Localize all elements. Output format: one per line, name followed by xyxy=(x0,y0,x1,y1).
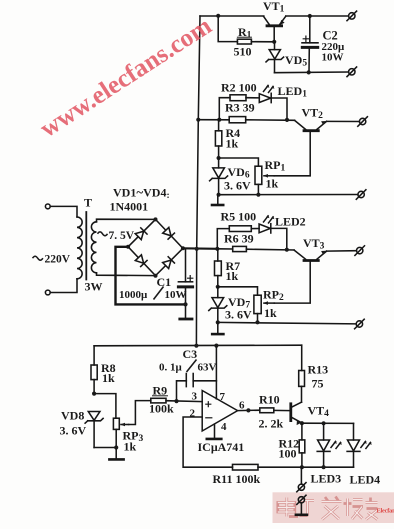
svg-text:R11 100k: R11 100k xyxy=(213,472,261,486)
capacitor C3 xyxy=(177,374,217,402)
resistor R9 xyxy=(151,398,166,403)
wire RP3 wiper to R9 xyxy=(129,401,151,425)
wire bridge minus xyxy=(116,247,186,305)
svg-text:1k: 1k xyxy=(226,269,239,283)
zener VD7 xyxy=(209,287,227,323)
wire RP1 wiper to VT2 base xyxy=(274,132,310,176)
node RP3 bottom xyxy=(114,445,118,449)
node R12 bottom xyxy=(300,465,304,469)
potentiometer RP3 xyxy=(113,418,128,447)
wire VT3 emitter to terminal xyxy=(327,250,357,252)
wire R6 to VT3 xyxy=(246,248,294,251)
wire R5 to LED2 xyxy=(251,228,259,230)
node rail/left bus xyxy=(194,344,198,348)
glyph fa xyxy=(322,497,342,520)
wire pin4 to ground xyxy=(214,424,216,438)
ground stage3 xyxy=(212,322,223,334)
terminal output 1b xyxy=(347,67,357,77)
terminal output 2b xyxy=(356,190,366,200)
svg-text:3. 6V: 3. 6V xyxy=(60,424,87,438)
resistor R12 xyxy=(299,423,305,467)
zener VD8 xyxy=(85,412,103,448)
wire R1 to VT1 base node xyxy=(251,41,274,43)
ground opamp pin4 xyxy=(207,438,222,441)
svg-text:1k: 1k xyxy=(124,440,137,454)
potentiometer RP1 xyxy=(255,166,274,195)
LED LED4 xyxy=(347,423,372,467)
capacitor C1 xyxy=(178,249,192,318)
transistor VT1 xyxy=(264,16,286,42)
node stage3 bus xyxy=(215,247,219,251)
node bridge right vertex xyxy=(181,246,185,250)
terminal output 3a xyxy=(355,246,365,256)
wire stage2 main line xyxy=(198,119,229,121)
node C1 minus junction xyxy=(183,302,187,306)
wire VT4 collector to R13 xyxy=(301,386,303,402)
glyph you xyxy=(366,498,378,520)
transformer T core xyxy=(85,212,87,280)
wire bridge plus xyxy=(183,247,217,250)
wire LED1 to main node xyxy=(271,98,287,120)
svg-text:R3 39: R3 39 xyxy=(225,101,255,115)
terminal output 1a xyxy=(347,11,357,21)
wire VT1 emitter to terminal xyxy=(286,15,349,17)
wire bottom line to LED4 xyxy=(302,466,354,468)
node R4 bottom xyxy=(217,156,221,160)
wire stage3 main line xyxy=(217,248,232,250)
svg-text:R2 100: R2 100 xyxy=(221,81,257,95)
resistor R6 xyxy=(233,246,247,251)
wire output drop xyxy=(300,467,302,484)
terminal output 2a xyxy=(358,117,368,127)
wire R2 loop left xyxy=(219,98,230,120)
LED LED3 xyxy=(317,423,342,467)
terminal output 4b xyxy=(297,495,306,504)
svg-text:220V: 220V xyxy=(45,254,71,266)
node bridge top vertex xyxy=(154,217,158,221)
resistor R10 xyxy=(260,408,274,413)
svg-text:0. 1μ: 0. 1μ xyxy=(159,362,183,374)
wire R9 to pin3 xyxy=(166,400,202,403)
wire emitter to LED rail xyxy=(302,422,354,424)
wire VT2 emitter to terminal xyxy=(327,120,360,122)
node stage2 line on left bus xyxy=(196,118,200,122)
node bridge plus / left bus xyxy=(195,247,199,251)
svg-text:1k: 1k xyxy=(102,371,115,385)
terminal AC input bottom xyxy=(45,290,50,295)
svg-text:R10: R10 xyxy=(259,393,280,407)
wire R1 left branch xyxy=(218,16,237,42)
wire R2 to LED1 xyxy=(246,97,259,99)
LED LED2 xyxy=(259,215,274,233)
node LED2/VT3 collector xyxy=(285,248,289,252)
diode VD2 xyxy=(163,227,175,239)
svg-text:3. 6V: 3. 6V xyxy=(225,308,252,322)
wire R4 node to RP1 top xyxy=(219,158,259,166)
terminal output 3b xyxy=(355,319,365,329)
resistor R5 xyxy=(229,226,251,232)
svg-text:510: 510 xyxy=(234,45,252,59)
svg-text:Elecfans.com: Elecfans.com xyxy=(377,508,394,515)
zener VD6 xyxy=(210,158,228,195)
capacitor C2 xyxy=(302,16,318,72)
svg-text:7: 7 xyxy=(220,391,226,403)
node VT4 emitter xyxy=(300,421,304,425)
svg-text:75: 75 xyxy=(312,377,324,391)
node stage2 loop left xyxy=(217,118,221,122)
ground RP3 xyxy=(109,448,123,460)
wire R8 node to RP3 top xyxy=(94,394,116,419)
resistor R11 xyxy=(233,464,259,470)
resistor R8 xyxy=(91,346,97,394)
svg-text:1k: 1k xyxy=(264,306,277,320)
resistor R2 xyxy=(230,95,246,101)
node VD7 bottom xyxy=(216,320,220,324)
label ~7.5V xyxy=(98,232,108,236)
svg-text:63V: 63V xyxy=(198,362,217,374)
node bridge left vertex xyxy=(126,245,130,249)
zener VD5 xyxy=(266,42,284,73)
wire R10 to VT4 base xyxy=(274,409,290,411)
svg-text:3. 6V: 3. 6V xyxy=(224,179,251,193)
bridge rectifier VD1-VD4 diamond xyxy=(128,219,183,275)
wire primary top xyxy=(50,206,77,217)
wire top rail left xyxy=(200,15,264,17)
svg-text:100: 100 xyxy=(279,447,297,461)
svg-text:VD8: VD8 xyxy=(61,409,84,423)
resistor R7 xyxy=(215,249,222,287)
node pin6 xyxy=(246,408,250,412)
wire opamp top rail xyxy=(94,344,302,347)
LED LED1 xyxy=(259,84,274,102)
node rail/pin7 drop xyxy=(214,344,218,348)
wire pin2 feedback xyxy=(183,417,232,467)
svg-text:3: 3 xyxy=(192,391,198,403)
node bridge bottom vertex xyxy=(154,274,158,278)
svg-text:2. 2k: 2. 2k xyxy=(259,417,284,431)
svg-text:T: T xyxy=(84,196,92,210)
wire stage3 bottom line xyxy=(218,322,356,324)
wire R5 loop left xyxy=(217,229,229,249)
svg-text:ICμA741: ICμA741 xyxy=(198,440,245,454)
svg-text:2: 2 xyxy=(190,408,196,420)
transformer T secondary winding xyxy=(91,222,96,273)
node R7 bottom xyxy=(216,285,220,289)
wire VD5 bottom to terminal xyxy=(275,71,349,74)
wire primary bottom xyxy=(50,279,77,293)
ground C1 xyxy=(180,318,192,321)
svg-text:4: 4 xyxy=(221,421,227,433)
node VT1 base xyxy=(272,40,276,44)
transistor VT4 xyxy=(291,402,302,425)
svg-text:1000μ: 1000μ xyxy=(119,289,148,301)
transistor VT2 xyxy=(295,120,327,130)
resistor R13 xyxy=(299,345,305,386)
diode VD1 xyxy=(135,228,147,240)
node C2 bottom xyxy=(307,70,311,74)
node LED3 bottom xyxy=(322,465,326,469)
wire secondary bottom to bridge xyxy=(97,273,156,276)
transformer T primary winding xyxy=(77,217,82,279)
svg-text:LED2: LED2 xyxy=(275,215,306,229)
node RP1 bottom xyxy=(256,193,260,197)
terminal output 4a xyxy=(297,483,306,492)
svg-text:100k: 100k xyxy=(149,402,174,416)
wire stage2 bottom line xyxy=(219,194,358,196)
svg-text:R13: R13 xyxy=(308,363,329,377)
glyph zi xyxy=(300,501,315,516)
wire LED2 to main node xyxy=(271,228,287,249)
wire RP2 wiper to VT3 base xyxy=(274,262,310,303)
svg-text:7. 5V: 7. 5V xyxy=(109,230,135,242)
wire pin7 supply xyxy=(215,346,217,399)
wire secondary top to bridge xyxy=(97,219,156,222)
diode VD4 xyxy=(163,257,175,269)
svg-text:R6 39: R6 39 xyxy=(224,232,254,246)
node C2 top xyxy=(308,14,312,18)
potentiometer RP2 xyxy=(254,295,274,322)
resistor R1 xyxy=(237,39,251,44)
svg-text:C3: C3 xyxy=(183,347,198,361)
wire R11 to R12 node xyxy=(258,466,302,468)
wire R7 node to RP2 top xyxy=(218,287,258,295)
diode VD3 xyxy=(135,255,147,267)
glyph shao xyxy=(344,499,364,520)
resistor R4 xyxy=(215,120,221,158)
node RP2 bottom xyxy=(255,320,259,324)
svg-text:LED3: LED3 xyxy=(311,472,342,486)
terminal AC input top xyxy=(45,204,50,209)
svg-text:1k: 1k xyxy=(226,137,239,151)
label ~220V xyxy=(33,256,43,260)
node top-rail/R1 xyxy=(216,14,220,18)
wire left bus xyxy=(196,16,200,346)
node C3 tap xyxy=(174,399,178,403)
svg-text:LED4: LED4 xyxy=(350,473,381,487)
ground stage2 xyxy=(212,195,223,205)
svg-text:R5 100: R5 100 xyxy=(221,210,257,224)
wire pin6 output xyxy=(238,409,260,411)
node LED1/VT2 collector xyxy=(285,118,289,122)
node R8 bottom xyxy=(92,392,96,396)
resistor R3 xyxy=(229,117,246,123)
svg-text:1N4001: 1N4001 xyxy=(110,200,149,214)
transistor VT3 xyxy=(294,250,327,260)
op-amp U1 uA741 xyxy=(202,391,237,432)
svg-text:3W: 3W xyxy=(85,280,103,294)
svg-text:10W: 10W xyxy=(165,289,187,301)
glyph dian xyxy=(278,498,298,517)
ground output xyxy=(296,503,307,515)
svg-text:6: 6 xyxy=(239,400,245,412)
svg-text:1k: 1k xyxy=(266,177,279,191)
svg-text:10W: 10W xyxy=(322,52,344,64)
watermark band bottom right xyxy=(273,492,394,523)
wire VD8 bottom to RP3 bottom xyxy=(94,447,116,449)
node VD6 bottom xyxy=(217,193,221,197)
wire R3 to VT2 xyxy=(246,119,295,122)
node LED3 top xyxy=(322,421,326,425)
